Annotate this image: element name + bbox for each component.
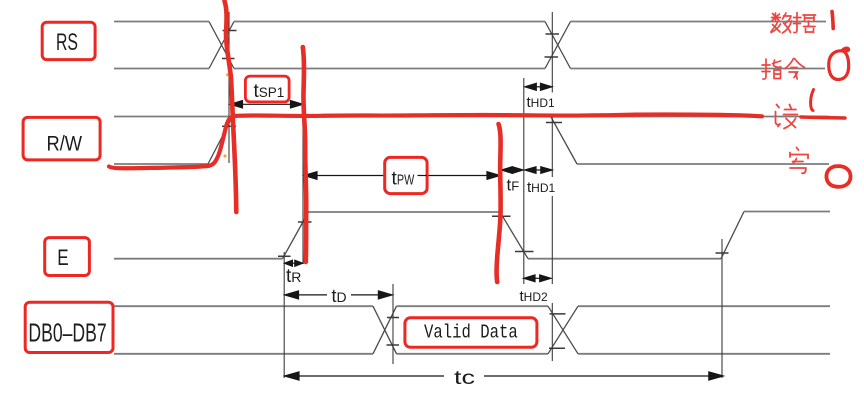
dimension reference lines <box>229 12 722 378</box>
node: R/W fall tick <box>546 122 562 124</box>
wire: RS low rail right segment <box>234 68 825 70</box>
red scribble: underline after 读 <box>801 117 845 118</box>
red scribble: vertical tick right of 数据 <box>832 12 833 29</box>
wire: reference line at cycle end x=722 <box>721 239 723 378</box>
label box tSP1 <box>245 76 289 102</box>
wire: R/W high rail <box>114 116 829 118</box>
node: RS crossover 1 ticks <box>222 31 237 59</box>
arrow tPW <box>305 175 384 177</box>
wire: E falling edge <box>500 212 528 259</box>
node: RS crossover 2 <box>545 22 571 69</box>
wire: R/W rising edge <box>208 116 233 164</box>
label box tPW <box>385 157 427 193</box>
wire: reference line at hold end x=552.3 <box>551 12 553 361</box>
wire: E high rail <box>309 211 501 213</box>
wire: DB bus high rail right <box>578 305 830 307</box>
red CJK text 指令 (command) <box>762 59 805 80</box>
svg-text:Valid Data: Valid Data <box>424 322 518 344</box>
svg-text:tc: tc <box>454 367 475 389</box>
red CJK text 数据 (data) <box>771 13 816 34</box>
wire: DB bus low rail left <box>114 353 373 355</box>
orange dot near R/W rise <box>223 154 226 157</box>
red CJK text 读 (read) <box>776 105 798 129</box>
arrow tSP1 <box>232 103 292 105</box>
wire: R/W low rail left <box>114 163 208 165</box>
svg-text:tF: tF <box>507 176 520 195</box>
wire: RS high rail right segment <box>234 21 826 23</box>
node: DB crossover 1 ticks <box>387 318 400 346</box>
signal label box R/W <box>23 117 100 159</box>
node: RS crossover 2 ticks <box>545 34 560 57</box>
wire: E high rail right <box>744 211 830 213</box>
orange dot near RS reference <box>226 73 229 76</box>
label box Valid Data <box>405 318 537 348</box>
wire: DB bus low rail valid segment <box>397 353 549 355</box>
wire: reference line at E rise start x=284.2 <box>283 252 285 378</box>
node: R/W rise tick <box>222 125 236 127</box>
wire: E second rising edge <box>721 212 744 259</box>
red scribble: hand-drawn O below 写 row <box>826 166 850 187</box>
wire: reference line at E rise end x=303 <box>302 92 304 264</box>
wire: reference line at data valid x=393 <box>392 284 394 364</box>
svg-text:tR: tR <box>286 266 301 287</box>
svg-text:tSP1: tSP1 <box>254 81 285 102</box>
wire: E low rail left <box>114 258 283 260</box>
node: DB crossover 2 <box>548 306 578 354</box>
arrow tHD1 top <box>535 86 542 88</box>
arrow tD <box>286 294 327 296</box>
arrow tR <box>291 262 297 264</box>
wire: R/W falling edge <box>551 117 577 164</box>
wire: R/W low rail right <box>577 163 829 165</box>
dimension arrows <box>230 83 723 380</box>
red scribble: vertical stroke at E rise reference <box>303 47 306 262</box>
arrow tF <box>510 169 515 171</box>
svg-text:DB0–DB7: DB0–DB7 <box>28 317 106 347</box>
signal label box DB0-DB7 <box>25 302 113 352</box>
svg-text:tD: tD <box>332 286 347 306</box>
wire: reference line at RS/RW valid x=229 <box>228 12 230 163</box>
node: E fall ticks <box>492 216 534 251</box>
node: E rise ticks <box>278 222 312 256</box>
red scribble: vertical stroke through RS transition <box>225 1 237 212</box>
node: E rise 2 tick <box>716 252 729 254</box>
wire: E rising edge <box>283 212 309 259</box>
wire: reference line at E fall end x=523.8 <box>523 78 525 284</box>
svg-text:tHD2: tHD2 <box>520 288 549 305</box>
node: DB crossover 1 <box>373 306 397 354</box>
wire: DB bus high rail left <box>114 305 373 307</box>
svg-text:tHD1: tHD1 <box>527 94 556 111</box>
node: RS crossover 1 <box>208 22 744 354</box>
wire: DB bus low rail right <box>578 353 830 355</box>
red scribble: hand-drawn 0 right of 指令 <box>829 48 849 79</box>
wire: RS high rail left segment <box>114 22 830 354</box>
wire: DB bus high rail valid segment <box>397 305 549 307</box>
red CJK text 写 (write) <box>790 148 808 174</box>
red scribble: long horizontal stroke along R/W <box>109 114 762 168</box>
wire: E low rail middle <box>528 258 721 260</box>
arrow tHD2 <box>534 277 541 279</box>
svg-text:R/W: R/W <box>47 132 83 156</box>
signal label box RS <box>42 22 95 59</box>
arrow tHD1 middle <box>534 169 542 171</box>
svg-text:E: E <box>57 245 68 270</box>
red scribble: small l mark above 读 underline <box>811 90 814 111</box>
arrow tc <box>286 375 444 377</box>
tick marks at measurement thresholds <box>222 31 729 349</box>
svg-text:RS: RS <box>56 29 78 56</box>
node: DB crossover 2 ticks <box>549 314 566 348</box>
wire: RS low rail left segment <box>114 68 209 70</box>
svg-text:tHD1: tHD1 <box>527 179 556 196</box>
svg-text:PW: PW <box>397 171 415 188</box>
signal label box E <box>45 238 90 276</box>
red scribble: vertical stroke at E fall <box>497 124 501 282</box>
